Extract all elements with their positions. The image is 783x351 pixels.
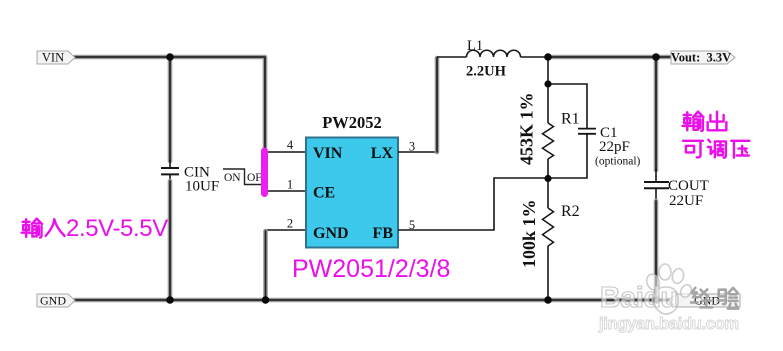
svg-text:LX: LX bbox=[371, 145, 394, 162]
port flag GND (bottom right) bbox=[669, 294, 740, 308]
svg-text:2.2UH: 2.2UH bbox=[466, 64, 507, 80]
label output annotation 输出/可调压 bbox=[683, 112, 750, 158]
svg-text:2.5V-5.5V: 2.5V-5.5V bbox=[66, 215, 168, 242]
svg-text:GND: GND bbox=[313, 225, 349, 242]
wire COUT top drop bbox=[654, 59, 659, 182]
wire LX riser bbox=[435, 58, 440, 152]
svg-text:FB: FB bbox=[373, 225, 394, 242]
wire R2 bottom bbox=[547, 246, 549, 300]
junction GND rail / R2 bbox=[544, 296, 552, 304]
svg-text:1: 1 bbox=[287, 178, 293, 192]
junction GND rail / CIN bbox=[166, 296, 174, 304]
svg-text:R1: R1 bbox=[561, 111, 580, 128]
inductor L1 bbox=[437, 50, 548, 57]
wire pin3 stub bbox=[398, 151, 437, 153]
resistor R1 bbox=[543, 123, 554, 159]
wire GND rail bbox=[75, 298, 671, 303]
op-amp style IC U1 PW2052 bbox=[306, 113, 398, 248]
junction R1 / C1 top bbox=[544, 80, 551, 87]
svg-text:10UF: 10UF bbox=[185, 179, 219, 195]
svg-text:22pF: 22pF bbox=[599, 139, 630, 155]
ON/OFF level annotation bbox=[223, 169, 267, 185]
svg-text:Baidu: Baidu bbox=[600, 282, 678, 314]
svg-text:VIN: VIN bbox=[313, 145, 343, 162]
wire C1 bottom return bbox=[548, 134, 587, 178]
port flag VIN bbox=[37, 51, 75, 65]
svg-text:GND: GND bbox=[40, 294, 66, 308]
wire CIN bottom drop bbox=[169, 175, 171, 300]
svg-text:Vout: 3.3V: Vout: 3.3V bbox=[671, 51, 731, 65]
wire CIN top drop bbox=[168, 58, 173, 168]
highlight marker (magenta) bbox=[261, 151, 268, 194]
watermark Baidu logo paw bbox=[645, 264, 694, 314]
junction GND rail / COUT bbox=[652, 296, 660, 304]
wire pin2 stub to ground bbox=[266, 230, 307, 300]
capacitor COUT bbox=[644, 182, 669, 188]
wire COUT bottom drop bbox=[655, 189, 657, 300]
svg-text:L1: L1 bbox=[467, 38, 483, 54]
wire output rail bbox=[548, 55, 670, 60]
svg-text:R2: R2 bbox=[561, 203, 580, 220]
wire R1 branch top bbox=[547, 58, 549, 123]
port flag GND (bottom left) bbox=[37, 294, 75, 308]
svg-text:VIN: VIN bbox=[42, 51, 64, 65]
svg-text:453K 1%: 453K 1% bbox=[517, 92, 537, 165]
svg-text:jingyan.baidu.com: jingyan.baidu.com bbox=[598, 315, 739, 333]
label input annotation 输入2.5V-5.5V bbox=[22, 219, 65, 238]
svg-text:(optional): (optional) bbox=[595, 156, 641, 168]
wire R2 top bbox=[547, 178, 549, 208]
svg-text:4: 4 bbox=[287, 138, 294, 152]
wire CE-VIN tie bbox=[263, 152, 265, 191]
svg-text:CE: CE bbox=[313, 185, 335, 202]
svg-text:100k 1%: 100k 1% bbox=[519, 199, 539, 268]
wire pin4 stub bbox=[263, 151, 306, 153]
capacitor CIN bbox=[161, 168, 179, 174]
junction VIN rail / CIN bbox=[166, 53, 174, 61]
wire pin1 stub bbox=[263, 190, 306, 192]
wire R1 to FB node bbox=[547, 159, 549, 179]
svg-text:2: 2 bbox=[287, 217, 293, 231]
svg-text:PW2051/2/3/8: PW2051/2/3/8 bbox=[292, 255, 450, 283]
junction L1 out / Vout rail / R1 bbox=[544, 53, 552, 61]
junction GND rail / IC GND bbox=[262, 296, 270, 304]
svg-text:22UF: 22UF bbox=[669, 193, 703, 209]
resistor R2 bbox=[543, 208, 554, 246]
watermark 经验 bbox=[691, 288, 738, 309]
capacitor C1 bbox=[578, 129, 596, 134]
svg-text:COUT: COUT bbox=[668, 178, 709, 194]
junction Vout rail / COUT bbox=[652, 53, 660, 61]
wire FB bbox=[398, 178, 548, 230]
wire C1 branch bbox=[548, 84, 587, 128]
svg-text:ON: ON bbox=[224, 172, 241, 184]
wire VIN rail (top left, turns down to pin 4) bbox=[75, 57, 265, 148]
label CIN value bbox=[184, 165, 219, 195]
port flag Vout 3.3V bbox=[671, 51, 735, 65]
node FB junction R1 / R2 / C1 / FB bbox=[544, 175, 551, 182]
svg-text:PW2052: PW2052 bbox=[322, 113, 382, 132]
